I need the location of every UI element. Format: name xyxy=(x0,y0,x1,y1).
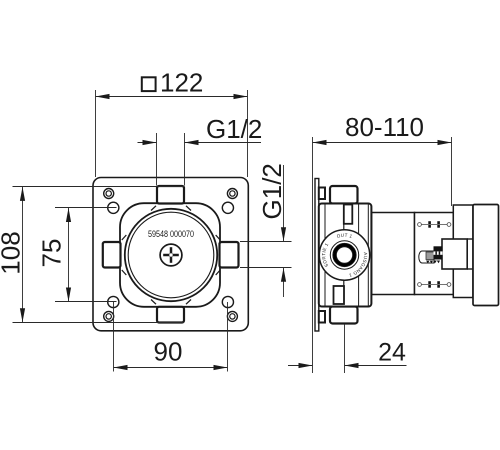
dim G1/2 right extension line top xyxy=(240,241,292,243)
dim G1/2 right leader line xyxy=(283,165,285,241)
dim 75 line xyxy=(68,208,70,302)
threaded fitting xyxy=(419,251,434,263)
side flange plate xyxy=(453,205,473,298)
svg-text:90: 90 xyxy=(154,337,183,367)
side mounting plate xyxy=(315,179,319,332)
depth mark lower xyxy=(418,283,451,287)
dim G1/2 right lower tail xyxy=(283,268,285,297)
svg-text:24: 24 xyxy=(378,339,406,367)
side body internal line 1 xyxy=(324,205,326,307)
inner rim circle xyxy=(128,212,214,298)
screw hole top-right xyxy=(227,189,237,199)
side label inner circle xyxy=(330,241,358,269)
svg-text:122: 122 xyxy=(160,67,203,97)
dim 108 extension line top xyxy=(13,186,185,188)
side back block xyxy=(473,205,499,306)
dim 80-110 arrow left xyxy=(313,140,327,145)
screw hole top-left xyxy=(104,189,114,199)
side plate tab lower xyxy=(319,311,325,323)
side latch lower xyxy=(334,286,345,304)
dim 75 extension line bottom xyxy=(55,301,117,303)
dim 122 arrow left xyxy=(96,94,110,99)
dim 122 extension line right xyxy=(247,90,249,177)
side middle block xyxy=(442,239,467,269)
tab corner tick marks xyxy=(122,206,220,304)
center screw xyxy=(160,244,182,266)
dim 90 arrow left xyxy=(114,365,128,370)
dim 24 extension line right xyxy=(344,324,346,373)
svg-text:G1/2: G1/2 xyxy=(206,114,262,144)
dim 90 arrow right xyxy=(214,365,228,370)
dim G1/2 right arrow up xyxy=(281,268,286,282)
dim 75 extension line top xyxy=(55,207,117,209)
fixing hole top-left xyxy=(108,202,119,213)
dim G1/2 top line left xyxy=(138,142,157,144)
svg-text:59548 000070: 59548 000070 xyxy=(148,229,194,239)
dim 122 square symbol xyxy=(142,77,156,91)
dim G1/2 top extension lines xyxy=(156,133,158,186)
dim G1/2 top arrow left xyxy=(143,140,157,145)
right port tab xyxy=(220,242,239,268)
dim 122 extension line left xyxy=(95,90,97,177)
dim 90 extension line left xyxy=(113,302,115,372)
central boss (rounded square housing) xyxy=(120,203,220,307)
dim 24 line right tail xyxy=(345,365,407,367)
side cylinder section A xyxy=(372,213,415,295)
dim 90 line xyxy=(114,367,228,369)
dim 75 arrow bottom xyxy=(66,288,71,302)
side plate tab upper xyxy=(319,188,325,200)
dim 122 arrow right xyxy=(234,94,248,99)
dim 24 arrow left xyxy=(299,363,313,368)
dim G1/2 top line right xyxy=(185,142,262,144)
dim 80-110 line xyxy=(313,142,452,144)
fixing hole bottom-right xyxy=(222,296,233,307)
dim 108 line xyxy=(22,187,24,322)
svg-text:G1/2: G1/2 xyxy=(257,163,287,219)
svg-text:108: 108 xyxy=(0,231,26,274)
dim 122 line xyxy=(96,96,248,98)
valve body circle xyxy=(125,209,217,301)
side label circle xyxy=(319,230,369,280)
dim 80-110 arrow right xyxy=(438,140,452,145)
dim 24 line left tail xyxy=(288,365,313,367)
dim 80-110 extension line left / wall line xyxy=(312,137,314,373)
dim 75 arrow top xyxy=(66,208,71,222)
side latch upper xyxy=(344,205,353,224)
dim 90 extension line right xyxy=(227,302,229,372)
side bore rings xyxy=(333,243,356,266)
dim G1/2 right extension line bottom xyxy=(240,267,292,269)
bottom port tab xyxy=(157,307,184,323)
dim G1/2 top arrow right xyxy=(185,140,199,145)
front mounting plate xyxy=(93,178,248,331)
fixing hole bottom-left xyxy=(108,296,119,307)
side body internal line 2 xyxy=(358,205,360,307)
dim 108 arrow top xyxy=(20,187,25,201)
top port tab G1/2 xyxy=(157,186,184,204)
side middle block connector lines xyxy=(467,238,473,240)
dim 80-110 extension line right xyxy=(451,137,453,206)
svg-text:80-110: 80-110 xyxy=(345,112,424,142)
depth mark upper xyxy=(418,223,451,227)
dim 24 arrow right xyxy=(345,363,359,368)
dim G1/2 right arrow down xyxy=(281,227,286,241)
side valve body xyxy=(319,204,372,307)
side bottom outlet tab xyxy=(330,307,358,324)
svg-text:75: 75 xyxy=(37,239,67,268)
side body internal line 3 xyxy=(367,205,369,307)
side latch connector lines xyxy=(343,224,345,234)
screw hole bottom-left xyxy=(104,311,114,321)
fixing hole top-right xyxy=(222,202,233,213)
left port tab xyxy=(103,242,121,268)
side section B (adjustment sleeve) xyxy=(415,213,454,295)
screw hole bottom-right xyxy=(227,311,237,321)
side top outlet tab xyxy=(330,186,358,204)
dim 108 arrow bottom xyxy=(20,308,25,322)
dim 108 extension line bottom xyxy=(13,322,185,324)
